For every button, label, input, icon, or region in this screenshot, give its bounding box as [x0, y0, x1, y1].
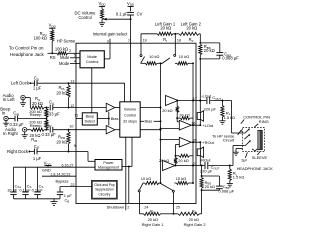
ground (RL left) [219, 120, 225, 122]
connector Audio In Left [3, 93, 26, 102]
ground (DC volume pot) [99, 22, 105, 24]
label SLEEVE [252, 152, 268, 160]
svg-text:Rbeep: Rbeep [30, 123, 42, 128]
block Click and Pop Suppression Circuitry [92, 180, 118, 199]
node RBS top (right) [201, 175, 203, 177]
label RING [254, 119, 268, 127]
svg-text:+LOut: +LOut [202, 123, 214, 128]
svg-text:Click and Pop: Click and Pop [94, 183, 115, 187]
ground (beep in) [3, 121, 9, 127]
svg-text:10 kΩ: 10 kΩ [149, 54, 159, 59]
node RBS top [199, 42, 201, 44]
node 10k D output [192, 182, 194, 184]
svg-text:Right Gain 2: Right Gain 2 [184, 222, 206, 227]
node beep mix right [45, 129, 47, 131]
node feedback bus at -ROut [192, 165, 194, 167]
node Left Dock [29, 82, 31, 84]
capacitor CBS 0.068 uF (right) [202, 176, 235, 194]
svg-text:20 kΩ: 20 kΩ [179, 113, 189, 118]
resistor RL 1.5 kOhm (left) [221, 101, 235, 121]
switch internal gain 1 (left) [140, 55, 145, 64]
svg-text:9: 9 [74, 144, 76, 148]
connector Audio In Right [3, 127, 27, 136]
wire volume control output left [140, 107, 161, 109]
speaker right channel [197, 142, 203, 165]
svg-text:Shutdown: Shutdown [107, 205, 125, 210]
svg-text:1,8,14,20,23: 1,8,14,20,23 [50, 172, 70, 176]
IC TPA6011A4 outline [76, 43, 196, 203]
wire pin 3 gain select stub [104, 39, 110, 59]
wire Right Dock row (pin 9) [7, 144, 76, 154]
pin 2 Shutdown stub [107, 204, 130, 211]
svg-text:1 µF: 1 µF [33, 86, 42, 91]
op-amp U3 (+ROut driver) [179, 137, 196, 147]
wire GND rail (pins 1,8,14,20,23) [42, 167, 76, 176]
wire pin 25 stub [174, 204, 180, 214]
svg-text:24: 24 [144, 205, 148, 209]
svg-text:Mute: Mute [60, 55, 70, 60]
node right fb [175, 155, 177, 157]
node RI/RF junction (right) [173, 213, 175, 215]
wire 10k B / feedback bus vertical [192, 63, 194, 183]
node RL left [221, 100, 223, 102]
resistor 20 kOhm (right fb horizontal) [176, 154, 194, 163]
wire volume control output right [140, 129, 161, 131]
resistor RL 1.5 kOhm (right) [228, 166, 244, 184]
wire pin 7 to volume control [130, 43, 132, 102]
ground (audio in left) [20, 100, 26, 106]
svg-text:Power: Power [103, 161, 114, 165]
svg-text:10 kΩ: 10 kΩ [176, 176, 186, 181]
switch internal gain 2 (right) [161, 184, 175, 193]
capacitor CS 0.1 uF (b) [32, 167, 44, 199]
svg-text:CV: CV [137, 11, 143, 16]
svg-text:To Control Pin on: To Control Pin on [9, 46, 44, 51]
pin 5 Mute input stub [60, 54, 80, 61]
svg-text:25: 25 [176, 205, 180, 209]
resistor RPR 20 kOhm [56, 130, 70, 152]
capacitor CS1 10 uF [7, 167, 21, 199]
node feedback bus at -ROut [192, 165, 194, 167]
svg-text:Rbeep: Rbeep [30, 112, 42, 117]
power VDD symbol (DC volume) [98, 1, 106, 9]
node fb bus at U3 output [192, 141, 194, 143]
svg-text:Circuit: Circuit [223, 138, 235, 143]
capacitor CS 0.1 uF (a) [19, 167, 31, 199]
resistor RI 20 kOhm Left Gain 1 [155, 22, 176, 43]
pin 4 Mode input stub [59, 60, 80, 67]
svg-text:Control: Control [124, 113, 136, 117]
node control-line / RPU junction [51, 52, 53, 54]
capacitor COUT 220 uF (left) [204, 95, 222, 111]
svg-text:20 kΩ: 20 kΩ [162, 108, 172, 113]
svg-text:220 µF: 220 µF [204, 106, 217, 111]
resistor RI 20 kOhm Right Gain 1 [139, 208, 173, 227]
svg-text:Bias: Bias [145, 119, 153, 124]
wire pin 24 stub [139, 204, 148, 214]
capacitor CBS 0.068 uF (left) [200, 43, 239, 61]
wire beep detect to bias node [97, 118, 109, 120]
svg-text:22: 22 [71, 183, 75, 187]
resistor internal 10 kOhm (right gain 1) [141, 176, 161, 185]
wire +LOut (pin 16) [196, 123, 214, 128]
svg-text:220 µF: 220 µF [200, 169, 213, 174]
node Right Dock [28, 151, 30, 153]
svg-text:Bypass: Bypass [56, 179, 69, 184]
ground (jack sleeve) [233, 149, 242, 156]
label CONTROL PIN [241, 114, 270, 124]
svg-text:HP Sense: HP Sense [57, 38, 76, 43]
wire To Control Pin on Headphone Jack [9, 46, 57, 58]
potentiometer DC Volume Control [75, 9, 132, 23]
svg-text:In: In [2, 110, 6, 115]
ground (audio in right) [22, 132, 28, 138]
capacitor CIR 0.33 uF [42, 122, 77, 137]
svg-text:RS: RS [50, 55, 56, 60]
wire mode control to beep detect [91, 68, 93, 113]
svg-text:32 steps: 32 steps [123, 119, 137, 123]
wire bias to U3 input [160, 139, 180, 141]
node RL right [229, 165, 231, 167]
svg-text:20 kΩ: 20 kΩ [56, 91, 67, 96]
svg-text:Bias: Bias [111, 116, 119, 121]
capacitor CD 1 uF (left dock) [33, 76, 42, 91]
resistor RF 20 kOhm Left Gain 2 [175, 22, 201, 43]
wire RF to -ROut feedback line [201, 166, 203, 214]
resistor 20 kOhm (left fb horizontal) [177, 113, 193, 120]
node 10k C output [160, 182, 162, 184]
ground (supply caps) [50, 199, 57, 206]
wire Left Dock row (pin 13) [11, 80, 76, 86]
power VDD symbol (CV) [127, 1, 135, 12]
wire right fb to U3 input [176, 145, 180, 156]
svg-text:20 kΩ: 20 kΩ [178, 158, 188, 163]
wire pin 13 to volume control [76, 83, 125, 102]
capacitor CV 0.1 uF [116, 11, 143, 43]
wire pin 25 internal [173, 192, 175, 203]
svg-text:100 kΩ: 100 kΩ [55, 46, 68, 51]
node RBS bottom (right) [201, 189, 203, 191]
node U1 output / 20k [176, 100, 178, 102]
speaker left channel [197, 101, 203, 126]
ground (RL right) [227, 183, 233, 185]
svg-text:100 kΩ: 100 kΩ [34, 35, 47, 40]
svg-text:2: 2 [127, 206, 129, 210]
resistor Rbeep 200 kOhm (upper) [29, 108, 48, 119]
label TIP [241, 152, 248, 163]
svg-text:10: 10 [69, 124, 73, 128]
resistor Rbeep 200 kOhm (lower) [29, 119, 48, 130]
op-amp U1 (-LOut driver) [166, 96, 197, 106]
connector Beep In [0, 107, 11, 121]
svg-text:0.1 µF: 0.1 µF [116, 11, 128, 16]
svg-text:RING: RING [259, 119, 269, 124]
node bias (buffers) [108, 112, 119, 126]
svg-text:Internal gain select: Internal gain select [93, 32, 129, 37]
node beep [45, 118, 47, 120]
svg-text:3: 3 [107, 39, 109, 43]
node 10k B output [192, 62, 194, 64]
switch internal gain 2 (left) [161, 54, 176, 64]
svg-text:In Right: In Right [3, 131, 19, 136]
svg-text:1 µF: 1 µF [33, 156, 42, 161]
wire VDD rail (pins 6,16,27) [14, 163, 96, 167]
svg-text:19: 19 [143, 39, 147, 43]
op-amp U4 (-ROut driver) [163, 161, 197, 171]
capacitor CIB 0.33 uF [8, 111, 46, 128]
node fb bus at U2 output [192, 124, 194, 126]
wire ground rail [14, 198, 61, 200]
node fb bus at -LOut [192, 100, 194, 102]
headphone jack plug sleeve [258, 130, 263, 150]
svg-text:Management: Management [98, 166, 119, 170]
node RPL bottom [68, 107, 70, 109]
svg-text:Control: Control [86, 59, 99, 64]
svg-text:12: 12 [70, 104, 74, 108]
wire RF to -LOut feedback line [199, 34, 201, 101]
label To HP sense Circuit [212, 129, 242, 142]
svg-text:+ROut: +ROut [202, 140, 214, 145]
capacitor CIL 0.33 uF [45, 99, 76, 116]
resistor internal 10 kOhm (left gain 1) [141, 54, 161, 65]
capacitor COUT 220 uF (right) [200, 162, 220, 174]
svg-text:11: 11 [74, 113, 78, 117]
wire pin 11 to beep detect [74, 113, 82, 118]
svg-text:6,16,27: 6,16,27 [62, 163, 74, 167]
capacitor CD 1 uF (right dock) [33, 144, 42, 161]
resistor RPU 100 kOhm [34, 30, 54, 53]
wire -LOut (pin 17) [196, 94, 232, 101]
wire bias rail to op-amps [140, 119, 161, 124]
resistor RS 100 kOhm (HP Sense) [50, 38, 80, 60]
svg-text:20 kΩ: 20 kΩ [204, 48, 215, 53]
node beep mix left [45, 107, 47, 109]
wire +ROut (pin 20) [196, 140, 215, 145]
svg-text:18: 18 [177, 39, 181, 43]
wire pin 9 to power management [76, 152, 95, 162]
wire pin 19 internal [140, 43, 142, 54]
power VDD symbol (supply) [44, 160, 52, 167]
svg-text:Mode: Mode [59, 61, 70, 66]
resistor RBS 20 kOhm (right) [200, 176, 215, 190]
svg-text:Beep: Beep [86, 115, 94, 119]
wire volume control to shutdown line [125, 137, 127, 203]
resistor RPL 20 kOhm [56, 83, 70, 107]
svg-text:Right Gain 1: Right Gain 1 [142, 222, 164, 227]
resistor internal 10 kOhm (left gain 2) [175, 54, 193, 65]
resistor RIR 20 kOhm [27, 128, 49, 143]
block Power Management [95, 160, 122, 171]
wire audio-in-left to RIL [25, 98, 30, 108]
jack contact tip [243, 140, 251, 145]
wire -ROut (pin 21) [196, 157, 233, 166]
svg-text:Control: Control [78, 15, 91, 20]
svg-text:0.33 µF: 0.33 µF [42, 132, 57, 137]
resistor RF 20 kOhm Right Gain 2 [174, 208, 206, 227]
svg-text:10 µF: 10 µF [7, 188, 18, 193]
resistor RBS 20 kOhm (left) [199, 44, 215, 55]
svg-text:Left Dock: Left Dock [11, 81, 30, 86]
node RPR bottom [68, 151, 70, 153]
svg-text:1.5 kΩ: 1.5 kΩ [224, 115, 236, 120]
svg-text:10 kΩ: 10 kΩ [179, 54, 189, 59]
svg-text:Suppression: Suppression [95, 188, 113, 192]
node left fb [176, 117, 178, 119]
capacitor CB 1 uF [57, 187, 73, 204]
node RPR top [68, 129, 70, 131]
svg-text:2: 2 [69, 49, 71, 53]
svg-text:HEADPHONE JACK: HEADPHONE JACK [237, 166, 273, 171]
wire pin 18 stub [175, 34, 181, 43]
svg-text:Circuitry: Circuitry [98, 192, 110, 196]
wire left fb to U2 input [177, 118, 179, 122]
buffer amp right (input mux) [76, 126, 120, 134]
power VDD symbol (RPU pull-up) [49, 23, 57, 30]
svg-text:20 kΩ: 20 kΩ [32, 101, 43, 106]
svg-text:10 kΩ: 10 kΩ [141, 176, 151, 181]
svg-text:13: 13 [70, 80, 74, 84]
block Volume Control 32 steps [120, 102, 140, 137]
op-amp U2 (+LOut driver) [179, 120, 196, 130]
headphone jack body (dashed) [243, 128, 265, 152]
wire pin 24 internal [138, 192, 140, 204]
svg-text:0.1 µF: 0.1 µF [19, 188, 31, 193]
wire Bypass (pin 22) [56, 179, 92, 187]
resistor 20 kOhm (left fb vertical) [162, 101, 179, 119]
block Beep Detect [82, 113, 97, 125]
svg-text:Volume: Volume [124, 107, 136, 111]
resistor 20 kOhm (right fb vertical) [159, 156, 177, 166]
node U4 output / 20k [175, 165, 177, 167]
svg-text:In Left: In Left [3, 97, 16, 102]
svg-text:20 kΩ: 20 kΩ [205, 184, 215, 189]
wire -LOut to jack ring [232, 101, 243, 134]
block Mode Control [80, 51, 104, 68]
node -LOut [199, 100, 201, 102]
buffer amp left (input mux) [76, 103, 120, 111]
svg-text:0.1 µF: 0.1 µF [32, 188, 44, 193]
svg-text:TIP: TIP [241, 158, 247, 163]
node 10k A output [160, 62, 162, 64]
wire pin 18 internal [174, 43, 176, 54]
svg-text:20 kΩ: 20 kΩ [56, 140, 67, 145]
wire -ROut to jack tip [233, 146, 243, 166]
svg-text:0.33 µF: 0.33 µF [45, 112, 60, 117]
jack contact ring [244, 134, 250, 139]
node RPL top [68, 82, 70, 84]
svg-text:Detect: Detect [85, 120, 95, 124]
svg-text:0.068 µF: 0.068 µF [222, 55, 239, 60]
svg-text:0.068 µF: 0.068 µF [219, 189, 235, 194]
node RBS bottom [199, 58, 201, 60]
switch internal gain 1 (right) [138, 183, 143, 192]
svg-text:Headphone Jack: Headphone Jack [10, 52, 45, 57]
svg-text:Right Dock: Right Dock [7, 149, 29, 154]
svg-text:20 kΩ: 20 kΩ [186, 26, 197, 31]
resistor internal 10 kOhm (right gain 2) [174, 176, 193, 185]
wire power management to suppression bus [122, 137, 132, 203]
svg-text:20 kΩ: 20 kΩ [160, 26, 171, 31]
jack contact sleeve [252, 149, 258, 151]
wire bias to U2 input [160, 127, 180, 129]
svg-text:7: 7 [128, 39, 130, 43]
svg-text:SLEEVE: SLEEVE [252, 155, 268, 160]
wire internal gain bus vertical [160, 63, 162, 183]
jack contact control pin [243, 128, 250, 133]
svg-text:1.5 kΩ: 1.5 kΩ [233, 175, 245, 180]
wire pin 19 to RI [141, 34, 157, 43]
node RI/RF junction [174, 33, 176, 35]
svg-text:-ROut: -ROut [200, 157, 211, 162]
resistor RIL 20 kOhm [30, 96, 49, 109]
